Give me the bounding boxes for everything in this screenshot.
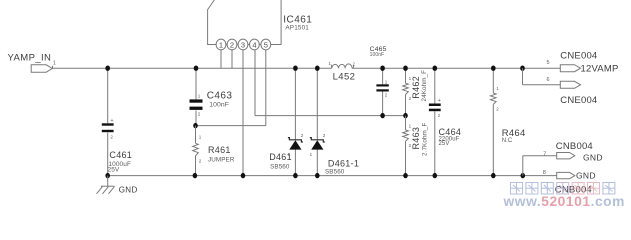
wire: branch up to pin 7 — [522, 156, 524, 176]
svg-text:N.C: N.C — [502, 138, 513, 144]
capacitor C463 wire — [195, 68, 197, 99]
node: ground / C464 — [433, 173, 438, 178]
node: bus / D461 — [293, 66, 298, 71]
diode D461-1 — [316, 68, 318, 140]
node: bus / D461-1 — [315, 66, 320, 71]
capacitor C464 — [434, 68, 436, 103]
resistor R463 — [405, 116, 407, 130]
resistor R462 — [405, 68, 407, 83]
wire: IC pin1 stub — [220, 50, 222, 68]
wire: pin5 line to C463/R461 node — [196, 125, 267, 127]
svg-text:CNE004: CNE004 — [560, 51, 597, 62]
node: ground branch to CNB004 — [521, 173, 526, 178]
svg-text:1: 1 — [219, 40, 223, 49]
resistor R461 — [195, 126, 197, 144]
svg-text:+: + — [438, 98, 441, 104]
wire: pin4 feedback line — [255, 115, 406, 117]
wire: IC pin4 stub down — [254, 50, 256, 116]
svg-text:C464: C464 — [439, 127, 462, 137]
svg-text:R462: R462 — [411, 76, 421, 99]
svg-text:1: 1 — [53, 60, 56, 66]
capacitor C461 wire — [107, 68, 109, 123]
node: ground / R461 — [193, 173, 198, 178]
node: feedback / R462 / R463 — [403, 113, 408, 118]
svg-text:+: + — [110, 118, 113, 124]
node: bus / C463 — [194, 66, 199, 71]
node: ground / R463 — [403, 173, 408, 178]
svg-text:R463: R463 — [411, 127, 421, 150]
IC461 pins 1-5 — [216, 39, 226, 50]
svg-text:C461: C461 — [109, 150, 132, 160]
node: C463 / R461 / pin5 — [193, 123, 198, 128]
wire: top bus right of L452 — [352, 67, 560, 69]
svg-text:GND: GND — [583, 152, 603, 162]
wire: IC pin2 stub — [231, 50, 233, 68]
svg-text:CNE004: CNE004 — [560, 95, 597, 106]
capacitor C465 — [382, 68, 384, 84]
node: bus branch to CNE004 — [520, 66, 525, 71]
svg-text:8: 8 — [543, 170, 546, 176]
svg-text:12VAMP: 12VAMP — [581, 64, 619, 75]
svg-text:24Kohm_F: 24Kohm_F — [421, 70, 428, 102]
wire: input/output top bus — [52, 67, 332, 69]
svg-text:6: 6 — [547, 77, 550, 83]
node: bus / C464 — [433, 66, 438, 71]
svg-text:AP1501: AP1501 — [285, 25, 309, 32]
svg-text:L452: L452 — [333, 71, 356, 82]
svg-text:CNB004: CNB004 — [556, 141, 593, 152]
svg-text:www.520101.com: www.520101.com — [503, 194, 625, 209]
svg-text:C463: C463 — [207, 90, 233, 101]
node: bus / C465 — [380, 66, 385, 71]
capacitor C463 plates — [190, 99, 203, 102]
node: bus / R462 — [403, 66, 408, 71]
svg-text:GND: GND — [119, 186, 138, 195]
svg-text:4: 4 — [252, 40, 256, 49]
svg-text:5: 5 — [264, 40, 268, 49]
node: feedback / C465 — [380, 113, 385, 118]
svg-text:R461: R461 — [208, 145, 231, 155]
svg-text:D461-1: D461-1 — [328, 158, 359, 168]
wire: ground bus — [108, 175, 557, 177]
svg-text:JUMPER: JUMPER — [208, 156, 235, 163]
wire: IC pin5 stub down — [265, 50, 267, 126]
diode D461 — [294, 68, 296, 140]
svg-text:3: 3 — [241, 40, 245, 49]
svg-text:2.7Kohm_F: 2.7Kohm_F — [421, 122, 428, 156]
watermark chinese characters — [511, 183, 523, 195]
svg-text:SB560: SB560 — [325, 169, 345, 176]
svg-text:2: 2 — [230, 40, 234, 49]
op-amp/regulator IC461 box — [208, 0, 282, 45]
node: ground / IC pin3 — [241, 173, 246, 178]
svg-text:SB560: SB560 — [270, 164, 290, 171]
node: ground / D461-1 — [315, 173, 320, 178]
svg-text:25V: 25V — [108, 167, 120, 174]
node: ground / C461 — [105, 173, 110, 178]
inductor L452 — [331, 65, 333, 68]
connector YAMP_IN — [31, 65, 52, 72]
svg-text:GND: GND — [576, 170, 596, 180]
svg-text:100nF: 100nF — [370, 52, 385, 58]
node: bus / R464 — [491, 66, 496, 71]
svg-text:100nF: 100nF — [209, 101, 229, 108]
svg-text:25V: 25V — [439, 141, 450, 147]
svg-text:YAMP_IN: YAMP_IN — [8, 53, 52, 64]
resistor R464 — [492, 68, 494, 93]
node: ground / R464 — [491, 173, 496, 178]
svg-text:5: 5 — [547, 60, 550, 66]
wire: IC pin3 to ground — [242, 50, 244, 176]
svg-text:7: 7 — [543, 151, 546, 157]
wire: branch down to pin 6 — [522, 68, 524, 85]
node: bus / C461 — [105, 66, 110, 71]
svg-text:D461: D461 — [269, 152, 292, 162]
capacitor C461 plates — [102, 123, 114, 125]
ground GND symbol — [107, 176, 109, 187]
node: ground / D461 — [293, 173, 298, 178]
